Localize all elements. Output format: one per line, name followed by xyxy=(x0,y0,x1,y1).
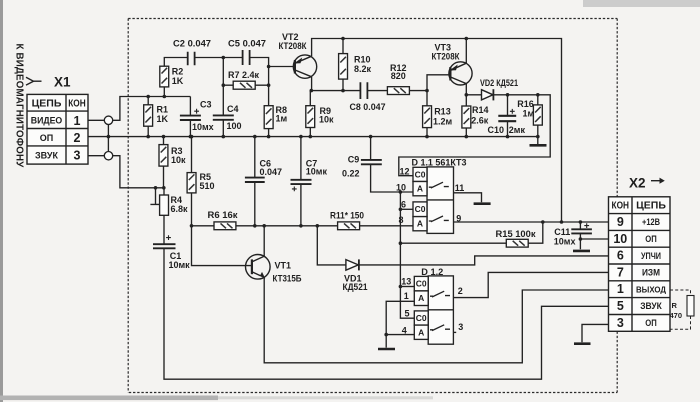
capacitor C7 xyxy=(291,135,328,228)
svg-text:6: 6 xyxy=(401,200,406,210)
svg-text:C0: C0 xyxy=(416,279,427,289)
svg-text:К ВИДЕОМАГНИТОФОНУ: К ВИДЕОМАГНИТОФОНУ xyxy=(14,44,25,169)
trimmer tap on R4 xyxy=(150,186,165,204)
svg-text:510: 510 xyxy=(200,181,215,191)
D1.2 pin numbers xyxy=(401,276,463,335)
svg-text:ОП: ОП xyxy=(645,234,657,245)
svg-text:7: 7 xyxy=(617,265,624,279)
wire VD1 branch from R6 line xyxy=(316,224,346,265)
diode VD2 xyxy=(480,78,518,100)
resistor R5 xyxy=(187,135,214,228)
capacitor C9 xyxy=(342,135,413,192)
svg-text:10мк: 10мк xyxy=(306,167,328,177)
wire C5 to VT2 base with R8 node xyxy=(250,58,295,69)
svg-text:R14: R14 xyxy=(472,105,489,115)
svg-text:C0: C0 xyxy=(415,169,426,179)
svg-text:R6 16к: R6 16к xyxy=(208,210,239,220)
wire VT1 collector xyxy=(262,224,266,256)
wire R6 line to D1.1 pin8 xyxy=(255,225,413,227)
resistor R4 xyxy=(160,188,188,244)
wire X2 row3 ОП to ground xyxy=(582,324,609,342)
svg-text:C4: C4 xyxy=(227,104,239,114)
capacitor C8 xyxy=(350,82,388,112)
svg-text:R1: R1 xyxy=(157,105,169,115)
svg-text:C10: C10 xyxy=(488,125,505,135)
svg-text:ЦЕПЬ: ЦЕПЬ xyxy=(32,98,62,110)
svg-text:1K: 1K xyxy=(157,114,169,124)
svg-text:10мх: 10мх xyxy=(554,237,576,247)
svg-text:C3: C3 xyxy=(200,100,212,110)
svg-text:+12В: +12В xyxy=(642,217,660,228)
svg-text:13: 13 xyxy=(401,276,411,286)
svg-text:ЗВУК: ЗВУК xyxy=(35,150,58,160)
svg-text:УПЧИ: УПЧИ xyxy=(641,251,661,262)
svg-text:3: 3 xyxy=(617,316,624,330)
wire D1.2 pin3 stub xyxy=(453,331,456,333)
svg-text:3: 3 xyxy=(458,322,463,332)
svg-text:VD2 КД521: VD2 КД521 xyxy=(480,78,518,88)
resistor R1 xyxy=(144,95,169,139)
svg-text:1м: 1м xyxy=(523,109,535,119)
svg-text:8.2к: 8.2к xyxy=(354,64,372,74)
capacitor C10 xyxy=(488,93,526,138)
svg-text:ИЗМ: ИЗМ xyxy=(642,268,660,279)
svg-text:R2: R2 xyxy=(172,67,184,77)
resistor R16 xyxy=(517,93,542,138)
+12V rail xyxy=(312,39,562,223)
svg-text:VT1: VT1 xyxy=(275,261,292,271)
svg-text:A: A xyxy=(417,219,423,229)
svg-text:10мк: 10мк xyxy=(169,260,191,270)
svg-text:9: 9 xyxy=(617,215,624,229)
wire X2 ОП row10 to C11 ground node xyxy=(579,237,609,241)
svg-text:R11* 150: R11* 150 xyxy=(330,210,364,220)
svg-text:R13: R13 xyxy=(434,107,451,117)
svg-text:X2: X2 xyxy=(629,176,646,191)
svg-text:10к: 10к xyxy=(319,115,334,125)
svg-text:0.22: 0.22 xyxy=(342,168,360,178)
svg-text:ЗВУК: ЗВУК xyxy=(640,301,662,312)
svg-text:5: 5 xyxy=(617,299,624,313)
wire D1.2 pin2 to X2 ИЗМ xyxy=(453,272,608,297)
wire X1 pin3 ЗВУК xyxy=(88,156,164,188)
svg-text:2: 2 xyxy=(458,286,463,296)
svg-text:10к: 10к xyxy=(171,155,186,165)
ground at X2 row3 xyxy=(574,342,591,345)
wire R12 to VT3 base xyxy=(425,75,450,93)
svg-text:ВИДЕО: ВИДЕО xyxy=(31,116,63,126)
svg-text:1: 1 xyxy=(617,282,624,296)
IC D1.2 body xyxy=(414,276,453,344)
svg-text:КТ208К: КТ208К xyxy=(432,51,460,61)
svg-text:C5 0.047: C5 0.047 xyxy=(228,39,266,49)
svg-text:A: A xyxy=(418,327,424,337)
svg-text:КД521: КД521 xyxy=(343,282,368,292)
resistor R3 xyxy=(159,135,186,188)
svg-text:C0: C0 xyxy=(416,313,427,323)
transistor VT2 xyxy=(279,32,317,78)
wire R5/R6 node to VT1 base xyxy=(192,226,252,266)
wire VD2 cathode to R16 and down to D1.1 pin12 line xyxy=(399,95,550,176)
capacitor C5 xyxy=(228,39,266,66)
svg-text:C9: C9 xyxy=(348,154,360,164)
ground at D1.2 xyxy=(378,348,395,351)
IC D1.1 body xyxy=(413,167,454,234)
svg-text:5: 5 xyxy=(404,308,409,318)
svg-text:R: R xyxy=(672,301,678,310)
wire D1.1 pin11 to ground xyxy=(454,193,482,203)
resistor R10 xyxy=(339,37,372,93)
resistor R11* xyxy=(330,210,364,229)
svg-text:2: 2 xyxy=(74,131,81,145)
svg-text:D 1.1 561КТ3: D 1.1 561КТ3 xyxy=(412,157,467,167)
resistor R12 xyxy=(387,63,427,95)
svg-text:10мх: 10мх xyxy=(192,122,214,132)
wire VT1 emitter to X2 ВЫХОД xyxy=(264,278,608,363)
transistor VT3 xyxy=(432,43,473,86)
svg-text:C11: C11 xyxy=(554,227,570,237)
D1.2 switch symbols xyxy=(430,291,450,330)
contact circle X1 pin3 xyxy=(104,152,112,160)
wire VT3 emitter to rail xyxy=(465,37,469,64)
capacitor C3 xyxy=(180,97,214,139)
ground at D1.1 pin11 xyxy=(474,202,491,205)
svg-text:1: 1 xyxy=(404,291,409,301)
resistor R6 xyxy=(192,210,255,230)
svg-text:C0: C0 xyxy=(415,204,426,214)
svg-text:R10: R10 xyxy=(354,55,371,65)
svg-text:ОП: ОП xyxy=(645,318,657,329)
svg-text:X1: X1 xyxy=(54,75,71,90)
svg-text:820: 820 xyxy=(391,71,406,81)
svg-text:КТ315Б: КТ315Б xyxy=(273,274,302,284)
wire D1.1 pin9 to +12 line xyxy=(454,220,609,224)
svg-text:A: A xyxy=(418,293,424,303)
resistor R13 xyxy=(423,91,453,139)
wire ОП bus (common) xyxy=(88,136,538,138)
svg-text:A: A xyxy=(417,184,423,194)
wire shield link between X1 contacts xyxy=(107,125,109,152)
connector X1 table xyxy=(27,94,88,164)
svg-text:R15 100к: R15 100к xyxy=(496,229,537,239)
resistor R14 xyxy=(462,95,489,139)
svg-text:12: 12 xyxy=(399,167,409,177)
scan left edge shade xyxy=(0,0,3,402)
wire D1.1 pin10 from C9, control vertical xyxy=(399,190,415,318)
scan top-right grey strip xyxy=(583,0,700,7)
capacitor C4 xyxy=(213,58,242,139)
svg-text:470: 470 xyxy=(670,311,683,320)
svg-text:6.8к: 6.8к xyxy=(171,204,189,214)
transistor VT1 xyxy=(245,254,301,283)
svg-text:1: 1 xyxy=(74,114,81,128)
ground at C11 xyxy=(573,250,590,253)
unit boundary (dashed) xyxy=(128,19,617,393)
svg-text:1.2м: 1.2м xyxy=(433,117,453,127)
resistor R15 xyxy=(400,222,542,247)
svg-text:КОН: КОН xyxy=(68,98,86,110)
wire D1.2 pin1 to ground bracket xyxy=(386,301,414,347)
wire VD1 to X2 УПЧИ xyxy=(359,256,609,265)
resistor R7 xyxy=(222,70,271,89)
wire D1.2 pin13 stub xyxy=(400,286,414,288)
svg-text:10: 10 xyxy=(613,232,627,246)
svg-text:C2 0.047: C2 0.047 xyxy=(173,39,211,49)
svg-text:2мк: 2мк xyxy=(509,125,526,135)
external load R 470 (dashed) xyxy=(670,290,695,329)
svg-text:3: 3 xyxy=(74,149,81,163)
wire X1 pin1 ВИДЕО to video bus xyxy=(88,97,190,121)
resistor R9 xyxy=(306,91,334,139)
capacitor C11 xyxy=(554,222,592,249)
resistor R2 xyxy=(160,58,188,99)
svg-text:R7 2.4к: R7 2.4к xyxy=(228,70,259,80)
arrow at X2 xyxy=(651,178,665,184)
wire VT3 collector to detector line xyxy=(465,84,482,97)
wire C2 to C5 with node xyxy=(195,56,243,60)
D1.1 switch symbols xyxy=(429,182,449,222)
resistor R8 xyxy=(264,67,287,139)
svg-text:1м: 1м xyxy=(276,114,288,124)
connector X2 table xyxy=(609,197,671,331)
diode VD1 xyxy=(343,259,368,291)
svg-text:R16: R16 xyxy=(517,99,534,109)
svg-text:6: 6 xyxy=(617,249,624,263)
svg-text:2.6к: 2.6к xyxy=(471,116,489,126)
svg-text:C8 0.047: C8 0.047 xyxy=(350,102,386,112)
wire C1 to X2 ЗВУК xyxy=(164,248,609,379)
svg-text:0.047: 0.047 xyxy=(260,167,283,177)
plug symbol at X1 xyxy=(26,77,42,85)
ground at R16/C10 xyxy=(530,137,547,146)
svg-text:11: 11 xyxy=(455,183,465,193)
svg-text:КТ208К: КТ208К xyxy=(279,41,307,51)
capacitor C6 xyxy=(245,135,282,228)
scan bottom grey band xyxy=(0,396,218,401)
D1.1 pin numbers xyxy=(396,167,464,226)
svg-text:100: 100 xyxy=(227,121,242,131)
svg-text:КОН: КОН xyxy=(612,199,630,211)
capacitor C1 xyxy=(153,235,190,270)
svg-text:ВЫХОД: ВЫХОД xyxy=(636,285,666,294)
wire D1.2 pin4 stub xyxy=(384,333,414,337)
wire VT2 collector line xyxy=(310,77,361,93)
svg-text:1K: 1K xyxy=(172,76,184,86)
contact circle X1 pin1 xyxy=(104,116,112,124)
svg-text:ОП: ОП xyxy=(40,133,53,143)
wire D1.1 pin6 stub xyxy=(400,208,413,210)
capacitor C2 xyxy=(173,39,211,66)
svg-text:ЦЕПЬ: ЦЕПЬ xyxy=(636,199,666,211)
